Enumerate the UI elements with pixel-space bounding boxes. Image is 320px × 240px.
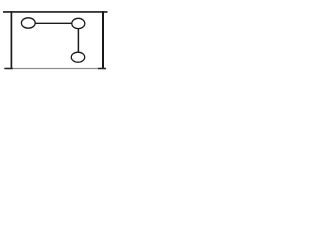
top bus wire [3,11,108,13]
terminal B [72,18,85,28]
bottom-right junction segment [98,68,106,70]
terminal A [21,18,35,28]
bottom-left junction segment [5,68,13,70]
bottom bus wire [4,68,106,70]
wire B-C [77,28,79,53]
terminal C [71,52,84,62]
right rail wire [102,11,104,69]
left rail wire [10,11,12,69]
wire A-B [34,22,73,24]
